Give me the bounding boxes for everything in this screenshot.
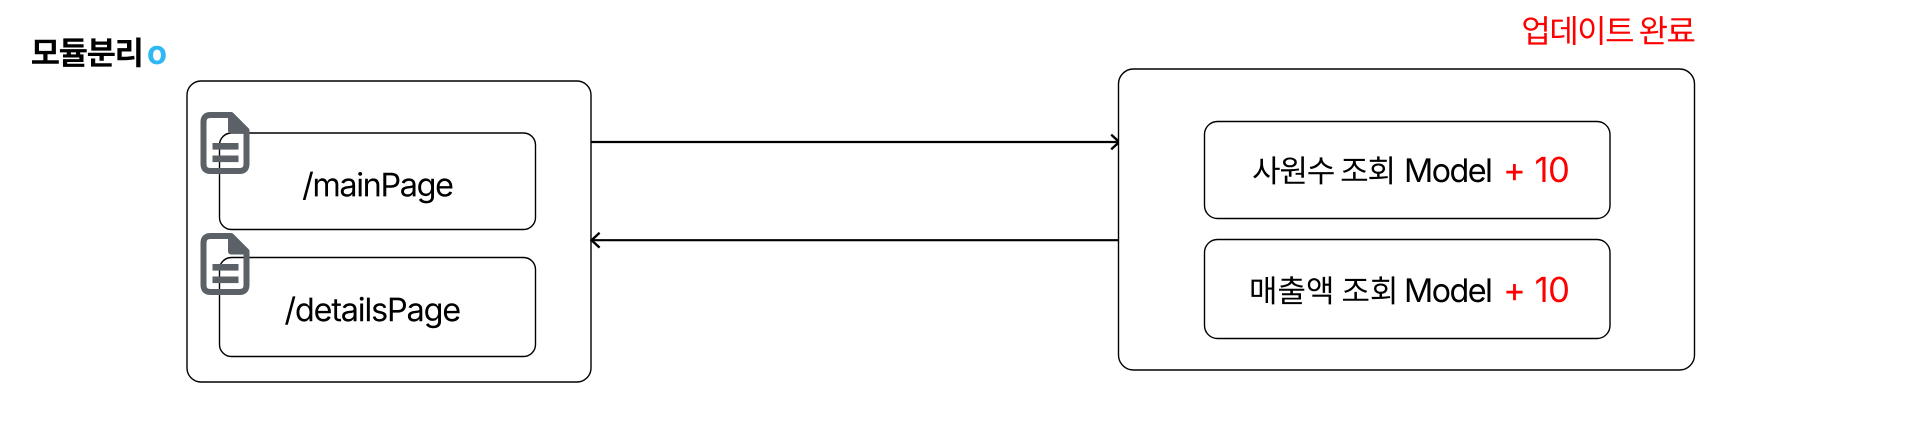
document icon 2: [204, 236, 247, 292]
label + 10 (row1, red): [1506, 157, 1568, 183]
arrow right to left: [592, 233, 1119, 248]
node box 사원수 조회 Model: [1205, 122, 1611, 219]
title cyan marker o: [148, 46, 166, 65]
arrow left to right: [591, 135, 1119, 150]
right module group box: [1119, 69, 1695, 370]
node box /detailsPage: [220, 258, 536, 357]
title text 모듈분리: [32, 38, 141, 68]
node box /mainPage: [220, 133, 536, 230]
label Model (row2): [1407, 278, 1491, 302]
left module group box: [187, 81, 591, 382]
label Model (row1): [1407, 158, 1491, 182]
label 사원수 조회: [1253, 156, 1392, 184]
document icon 1: [204, 115, 247, 171]
status label 업데이트 완료 (red): [1523, 16, 1694, 45]
node box 매출액 조회 Model: [1205, 240, 1611, 339]
label 매출액 조회: [1252, 276, 1395, 304]
label /mainPage: [303, 172, 453, 204]
label /detailsPage: [285, 296, 459, 328]
label + 10 (row2, red): [1506, 277, 1568, 303]
